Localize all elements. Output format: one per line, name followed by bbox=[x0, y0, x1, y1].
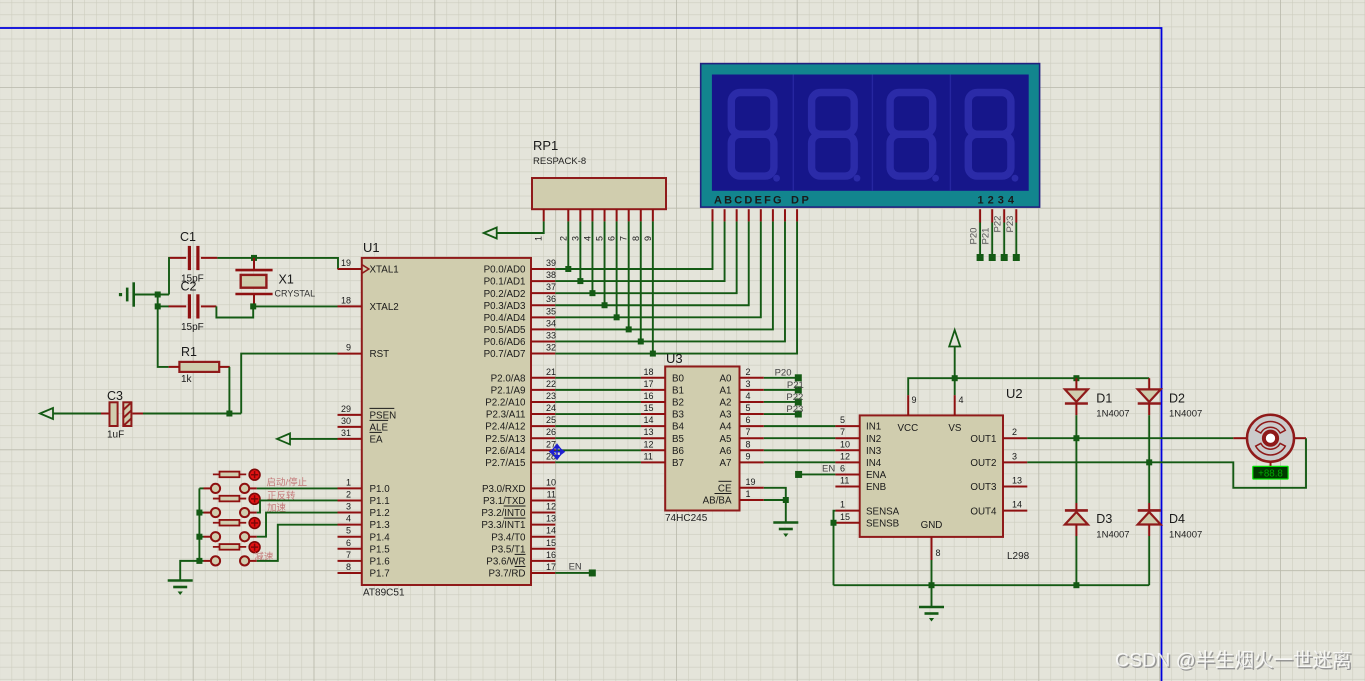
svg-text:PSEN: PSEN bbox=[370, 411, 397, 422]
svg-text:P2.0/A8: P2.0/A8 bbox=[491, 373, 526, 384]
svg-text:C2: C2 bbox=[181, 280, 197, 294]
U3 pin 19 CE bbox=[740, 487, 764, 489]
svg-text:P21: P21 bbox=[981, 228, 992, 245]
wire A2 to terminal P22 bbox=[764, 401, 795, 403]
wire A7 to IN4 bbox=[764, 461, 836, 463]
svg-text:32: 32 bbox=[546, 343, 556, 353]
svg-text:P0.3/AD3: P0.3/AD3 bbox=[484, 301, 526, 312]
ground bbox=[919, 607, 944, 614]
svg-text:1N4007: 1N4007 bbox=[1096, 530, 1129, 541]
svg-text:RST: RST bbox=[370, 349, 390, 360]
node junction bbox=[155, 303, 161, 309]
U2 pin 1 SENSA bbox=[835, 510, 859, 512]
pin 1 P1.0 bbox=[338, 487, 362, 489]
svg-text:9: 9 bbox=[746, 451, 751, 461]
pin 16 P3.6/WR bbox=[531, 560, 555, 562]
wire A5 to IN2 bbox=[764, 437, 836, 439]
svg-text:18: 18 bbox=[341, 295, 351, 305]
display segment pin bbox=[796, 209, 798, 221]
wire RP1 pin6 to P0.4 bus bbox=[616, 221, 618, 317]
wire bbox=[228, 367, 230, 414]
svg-text:SENSB: SENSB bbox=[866, 518, 900, 529]
wire GND to ground bbox=[931, 560, 933, 607]
pin 3 P1.2 bbox=[338, 512, 362, 514]
svg-text:10: 10 bbox=[546, 477, 556, 487]
svg-text:IN2: IN2 bbox=[866, 434, 881, 445]
svg-text:1N4007: 1N4007 bbox=[1096, 409, 1129, 420]
wire P0.5 to display segment F bbox=[555, 221, 773, 329]
U2 pin 6 ENA bbox=[835, 473, 859, 475]
svg-text:14: 14 bbox=[644, 415, 654, 425]
pin 12 P3.2/INT0 bbox=[531, 512, 555, 514]
wire button1 to P1.0 bbox=[257, 487, 338, 489]
wire bbox=[497, 221, 544, 233]
svg-text:P0.1/AD1: P0.1/AD1 bbox=[484, 277, 526, 288]
svg-text:P20: P20 bbox=[775, 368, 792, 379]
terminal arrow bbox=[40, 408, 53, 419]
pin 36 P0.3/AD3 bbox=[531, 304, 555, 306]
svg-text:A4: A4 bbox=[720, 422, 733, 433]
RP1 pin 4 bbox=[591, 209, 593, 221]
wire P2.3 to B3 bbox=[555, 413, 641, 415]
svg-text:P20: P20 bbox=[969, 228, 980, 245]
svg-text:1234: 1234 bbox=[978, 195, 1018, 207]
svg-text:ENA: ENA bbox=[866, 470, 887, 481]
svg-text:5: 5 bbox=[346, 526, 351, 536]
U3 pin 5 A3 bbox=[740, 413, 764, 415]
svg-text:13: 13 bbox=[1012, 476, 1022, 486]
svg-text:37: 37 bbox=[546, 282, 556, 292]
node junction bbox=[929, 582, 935, 588]
wire SENSA/SENSB bbox=[834, 511, 836, 586]
svg-text:ABCDEFG: ABCDEFG bbox=[714, 195, 784, 207]
pin 31 EA bbox=[338, 438, 362, 440]
wire bbox=[1075, 415, 1077, 438]
RP1 pin 5 bbox=[604, 209, 606, 221]
svg-text:8: 8 bbox=[936, 548, 941, 558]
svg-text:D2: D2 bbox=[1169, 392, 1185, 406]
svg-text:U2: U2 bbox=[1006, 386, 1023, 401]
svg-text:1: 1 bbox=[346, 477, 351, 487]
svg-text:ENB: ENB bbox=[866, 482, 887, 493]
svg-text:OUT3: OUT3 bbox=[970, 482, 997, 493]
svg-text:AT89C51: AT89C51 bbox=[363, 588, 405, 599]
svg-text:14: 14 bbox=[1012, 500, 1022, 510]
svg-text:7: 7 bbox=[346, 550, 351, 560]
wire P0.4 to display segment E bbox=[555, 221, 761, 317]
pin 7 P1.6 bbox=[338, 560, 362, 562]
wire P2.6 to B6 bbox=[555, 449, 641, 451]
pin 6 P1.5 bbox=[338, 548, 362, 550]
svg-text:P22: P22 bbox=[993, 216, 1004, 233]
svg-text:1: 1 bbox=[534, 236, 544, 241]
display digit pin 3 net P22 bbox=[1003, 209, 1005, 222]
svg-text:IN3: IN3 bbox=[866, 446, 882, 457]
pin 13 P3.3/INT1 bbox=[531, 524, 555, 526]
pin 35 P0.4/AD4 bbox=[531, 316, 555, 318]
pin 32 P0.7/AD7 bbox=[531, 353, 555, 355]
U3 pin 8 A6 bbox=[740, 449, 764, 451]
wire bbox=[216, 306, 253, 317]
wire bbox=[158, 306, 169, 367]
svg-text:A6: A6 bbox=[720, 446, 733, 457]
svg-text:A1: A1 bbox=[720, 385, 732, 396]
pin 2 P1.1 bbox=[338, 499, 362, 501]
svg-text:P2.4/A12: P2.4/A12 bbox=[485, 422, 525, 433]
wire A6 to IN3 bbox=[764, 449, 836, 451]
svg-text:P1.5: P1.5 bbox=[370, 544, 391, 555]
node junction bbox=[196, 534, 202, 540]
U3 pin 7 A5 bbox=[740, 437, 764, 439]
U2 pin 7 IN2 bbox=[835, 437, 859, 439]
node junction bbox=[1146, 459, 1152, 465]
svg-text:30: 30 bbox=[341, 416, 351, 426]
cursor cross bbox=[550, 445, 564, 460]
svg-text:7: 7 bbox=[619, 236, 629, 241]
U3 pin 18 B0 bbox=[641, 377, 665, 379]
wire bbox=[157, 295, 159, 307]
wire bbox=[1075, 536, 1077, 585]
svg-text:3: 3 bbox=[346, 502, 351, 512]
svg-text:D3: D3 bbox=[1096, 512, 1112, 526]
svg-text:P1.3: P1.3 bbox=[370, 520, 391, 531]
svg-text:4: 4 bbox=[582, 236, 592, 241]
pin 4 P1.3 bbox=[338, 524, 362, 526]
node junction bbox=[1073, 375, 1079, 381]
svg-text:P2.7/A15: P2.7/A15 bbox=[485, 458, 526, 469]
terminal EN (ENA) bbox=[795, 471, 802, 478]
svg-text:P0.0/AD0: P0.0/AD0 bbox=[484, 265, 526, 276]
wire bbox=[229, 413, 241, 415]
pin 21 P2.0/A8 bbox=[531, 377, 555, 379]
svg-text:18: 18 bbox=[644, 367, 654, 377]
svg-text:CE: CE bbox=[718, 483, 732, 494]
svg-text:8: 8 bbox=[746, 439, 751, 449]
button 启动/停止 bbox=[211, 484, 220, 493]
svg-text:P1.1: P1.1 bbox=[370, 496, 390, 507]
node junction bbox=[952, 375, 958, 381]
U2 pin 15 SENSB bbox=[835, 522, 859, 524]
U3 pin 1 AB/BA bbox=[740, 499, 764, 501]
pin 8 P1.7 bbox=[338, 572, 362, 574]
svg-text:7: 7 bbox=[840, 427, 845, 437]
svg-text:10: 10 bbox=[840, 439, 850, 449]
motor bbox=[1233, 437, 1247, 439]
svg-text:1k: 1k bbox=[181, 374, 193, 385]
svg-text:A0: A0 bbox=[720, 373, 733, 384]
svg-text:CSDN @半生烟火一世迷离: CSDN @半生烟火一世迷离 bbox=[1115, 650, 1351, 672]
pin 11 P3.1/TXD bbox=[531, 499, 555, 501]
svg-text:A3: A3 bbox=[720, 410, 733, 421]
svg-text:B7: B7 bbox=[672, 458, 684, 469]
wire P0.1 to display segment B bbox=[555, 221, 724, 281]
terminal arrow RP1 pin1 bbox=[484, 228, 497, 239]
svg-text:P3.4/T0: P3.4/T0 bbox=[491, 532, 526, 543]
svg-text:XTAL1: XTAL1 bbox=[370, 265, 399, 276]
display segment pin bbox=[724, 209, 726, 221]
svg-text:3: 3 bbox=[746, 379, 751, 389]
U2 pin 4 VS bbox=[954, 395, 956, 415]
wire RP1 pin4 to P0.2 bus bbox=[591, 221, 593, 293]
svg-text:P3.7/RD: P3.7/RD bbox=[488, 569, 525, 580]
svg-text:35: 35 bbox=[546, 306, 556, 316]
terminal EN (P3.7) bbox=[555, 572, 589, 574]
U3 pin 6 A4 bbox=[740, 425, 764, 427]
wire bbox=[1075, 438, 1077, 503]
wire P0.3 to display segment D bbox=[555, 221, 748, 305]
U3 pin 14 B4 bbox=[641, 425, 665, 427]
svg-text:VS: VS bbox=[948, 423, 962, 434]
display segment pin bbox=[784, 209, 786, 221]
svg-text:A5: A5 bbox=[720, 434, 733, 445]
wire P0.7 to display segment DP bbox=[555, 221, 797, 353]
svg-text:P22: P22 bbox=[786, 392, 803, 403]
svg-text:15: 15 bbox=[840, 512, 850, 522]
U2 pin 8 GND bbox=[931, 537, 933, 560]
svg-text:23: 23 bbox=[546, 391, 556, 401]
svg-text:P2.6/A14: P2.6/A14 bbox=[485, 446, 526, 457]
svg-text:P2.2/A10: P2.2/A10 bbox=[485, 398, 526, 409]
motor rpm readout +88.8 bbox=[1270, 462, 1272, 467]
svg-text:B3: B3 bbox=[672, 410, 685, 421]
diode D3 1N4007 bbox=[1075, 503, 1077, 510]
svg-text:B4: B4 bbox=[672, 422, 685, 433]
svg-text:XTAL2: XTAL2 bbox=[370, 302, 399, 313]
svg-text:24: 24 bbox=[546, 403, 556, 413]
4-digit 7-segment display bbox=[701, 64, 1040, 208]
U3 pin 16 B2 bbox=[641, 401, 665, 403]
svg-text:B2: B2 bbox=[672, 398, 684, 409]
svg-text:P3.3/INT1: P3.3/INT1 bbox=[481, 520, 525, 531]
svg-text:B0: B0 bbox=[672, 373, 685, 384]
svg-text:9: 9 bbox=[912, 395, 917, 405]
svg-text:6: 6 bbox=[840, 463, 845, 473]
wire P2.4 to B4 bbox=[555, 425, 641, 427]
svg-text:P1.2: P1.2 bbox=[370, 508, 390, 519]
svg-text:IN1: IN1 bbox=[866, 422, 881, 433]
pin 29 PSEN bbox=[338, 414, 362, 416]
diode D1 1N4007 bbox=[1075, 378, 1077, 389]
wire RP1 pin8 to P0.6 bus bbox=[640, 221, 642, 341]
wire bbox=[253, 305, 337, 307]
wire P2.2 to B2 bbox=[555, 401, 641, 403]
U3 pin 15 B3 bbox=[641, 413, 665, 415]
svg-text:P2.5/A13: P2.5/A13 bbox=[485, 434, 526, 445]
svg-text:P3.5/T1: P3.5/T1 bbox=[491, 544, 525, 555]
svg-text:AB/BA: AB/BA bbox=[703, 496, 732, 507]
svg-text:P1.7: P1.7 bbox=[370, 569, 390, 580]
svg-text:12: 12 bbox=[644, 439, 654, 449]
svg-text:A2: A2 bbox=[720, 398, 732, 409]
pin 14 P3.4/T0 bbox=[531, 536, 555, 538]
svg-text:SENSA: SENSA bbox=[866, 506, 900, 517]
wire bbox=[134, 294, 169, 296]
wire button4 to P1.3 bbox=[257, 525, 338, 561]
U2 pin 9 VCC bbox=[907, 395, 909, 415]
wire bbox=[167, 258, 170, 295]
svg-text:2: 2 bbox=[746, 367, 751, 377]
svg-text:B5: B5 bbox=[672, 434, 685, 445]
pin 27 P2.6/A14 bbox=[531, 449, 555, 451]
pin 25 P2.4/A12 bbox=[531, 425, 555, 427]
svg-text:6: 6 bbox=[746, 415, 751, 425]
svg-text:33: 33 bbox=[546, 330, 556, 340]
wire bbox=[53, 413, 101, 415]
svg-text:1: 1 bbox=[746, 489, 751, 499]
pin 10 P3.0/RXD bbox=[531, 487, 555, 489]
svg-text:启动/停止: 启动/停止 bbox=[267, 477, 308, 489]
svg-text:2: 2 bbox=[1012, 427, 1017, 437]
svg-text:29: 29 bbox=[341, 404, 351, 414]
svg-text:5: 5 bbox=[595, 236, 605, 241]
svg-text:P21: P21 bbox=[787, 380, 804, 391]
pin 33 P0.6/AD6 bbox=[531, 340, 555, 342]
U2 pin 3 OUT2 bbox=[1003, 461, 1027, 463]
svg-text:11: 11 bbox=[644, 451, 653, 461]
svg-text:CRYSTAL: CRYSTAL bbox=[275, 289, 316, 299]
svg-text:6: 6 bbox=[607, 236, 617, 241]
svg-text:25: 25 bbox=[546, 415, 556, 425]
svg-text:7: 7 bbox=[746, 427, 751, 437]
terminal arrow EA bbox=[277, 433, 290, 444]
svg-text:DP: DP bbox=[791, 195, 811, 207]
svg-text:P2.1/A9: P2.1/A9 bbox=[491, 385, 526, 396]
RP1 pin 3 bbox=[579, 209, 581, 221]
button 减速 bbox=[211, 556, 220, 565]
wire P2.0 to B0 bbox=[555, 377, 641, 379]
svg-text:C1: C1 bbox=[180, 230, 196, 244]
pin 30 ALE bbox=[338, 426, 362, 428]
display digit pin 1 net P20 bbox=[979, 209, 981, 222]
pin 34 P0.5/AD5 bbox=[531, 328, 555, 330]
svg-text:L298: L298 bbox=[1007, 551, 1030, 562]
button 加速 bbox=[211, 532, 220, 541]
node junction bbox=[196, 510, 202, 516]
U3 pin 11 B7 bbox=[641, 461, 665, 463]
svg-text:P3.0/RXD: P3.0/RXD bbox=[482, 484, 526, 495]
svg-text:VCC: VCC bbox=[898, 423, 919, 434]
U2 pin 13 OUT3 bbox=[1003, 486, 1027, 488]
svg-text:12: 12 bbox=[840, 451, 850, 461]
svg-text:P0.5/AD5: P0.5/AD5 bbox=[484, 325, 526, 336]
U2 pin 14 OUT4 bbox=[1003, 510, 1027, 512]
display segment pin bbox=[712, 209, 714, 221]
power terminal VCC arrow bbox=[949, 330, 960, 347]
svg-text:ALE: ALE bbox=[370, 423, 389, 434]
U2 pin 10 IN3 bbox=[835, 449, 859, 451]
svg-text:17: 17 bbox=[546, 562, 556, 572]
wire bbox=[1148, 536, 1150, 585]
wire RP1 pin3 to P0.1 bus bbox=[579, 221, 581, 281]
node junction bbox=[783, 497, 789, 503]
pin 15 P3.5/T1 bbox=[531, 548, 555, 550]
wire P2.5 to B5 bbox=[555, 437, 641, 439]
wire CE/ABBA to ground bbox=[764, 488, 786, 500]
svg-text:U1: U1 bbox=[363, 240, 380, 255]
U2 pin 5 IN1 bbox=[835, 425, 859, 427]
svg-text:EN: EN bbox=[822, 464, 835, 475]
svg-text:D4: D4 bbox=[1169, 512, 1185, 526]
svg-text:1N4007: 1N4007 bbox=[1169, 409, 1202, 420]
svg-text:3: 3 bbox=[1012, 451, 1017, 461]
svg-text:A7: A7 bbox=[720, 458, 732, 469]
svg-text:16: 16 bbox=[644, 391, 654, 401]
svg-text:16: 16 bbox=[546, 550, 556, 560]
svg-text:OUT1: OUT1 bbox=[970, 434, 996, 445]
svg-text:14: 14 bbox=[546, 526, 556, 536]
svg-text:B6: B6 bbox=[672, 446, 685, 457]
display digit pin 4 net P23 bbox=[1015, 209, 1017, 222]
node junction bbox=[155, 292, 161, 298]
svg-text:31: 31 bbox=[341, 428, 351, 438]
svg-text:5: 5 bbox=[840, 415, 845, 425]
U2 pin 2 OUT1 bbox=[1003, 437, 1027, 439]
svg-text:P3.6/WR: P3.6/WR bbox=[486, 556, 525, 567]
U3 pin 9 A7 bbox=[740, 461, 764, 463]
svg-text:38: 38 bbox=[546, 270, 556, 280]
svg-text:12: 12 bbox=[546, 502, 556, 512]
svg-text:17: 17 bbox=[644, 379, 654, 389]
wire P2.7 to B7 bbox=[555, 461, 641, 463]
wire bbox=[1148, 462, 1150, 503]
wire P0.2 to display segment C bbox=[555, 221, 736, 293]
wire A4 to IN1 bbox=[764, 425, 836, 427]
pin 38 P0.1/AD1 bbox=[531, 280, 555, 282]
pin 39 P0.0/AD0 bbox=[531, 268, 555, 270]
display segment pin bbox=[760, 209, 762, 221]
svg-text:P23: P23 bbox=[1005, 216, 1016, 233]
RP1 pin 6 bbox=[616, 209, 618, 221]
wire bbox=[290, 438, 338, 440]
U3 pin 17 B1 bbox=[641, 389, 665, 391]
wire P0.6 to display segment G bbox=[555, 221, 785, 341]
node junction bbox=[251, 255, 257, 261]
svg-text:4: 4 bbox=[746, 391, 751, 401]
U3 pin 12 B6 bbox=[641, 449, 665, 451]
node junction bbox=[226, 411, 232, 417]
wire RP1 pin9 to P0.7 bus bbox=[652, 221, 654, 353]
U2 pin 11 ENB bbox=[835, 486, 859, 488]
svg-text:11: 11 bbox=[547, 489, 556, 499]
diode D2 1N4007 bbox=[1148, 378, 1150, 389]
svg-text:OUT2: OUT2 bbox=[970, 458, 996, 469]
svg-text:13: 13 bbox=[644, 427, 654, 437]
pin 18 XTAL2 bbox=[338, 305, 362, 307]
svg-text:8: 8 bbox=[346, 562, 351, 572]
wire bottom bus bbox=[834, 584, 1150, 586]
RP1 pin 7 bbox=[628, 209, 630, 221]
display segment pin bbox=[772, 209, 774, 221]
pin 28 P2.7/A15 bbox=[531, 461, 555, 463]
svg-text:3: 3 bbox=[570, 236, 580, 241]
svg-text:P1.0: P1.0 bbox=[370, 484, 391, 495]
svg-text:1uF: 1uF bbox=[107, 430, 124, 441]
svg-text:GND: GND bbox=[921, 520, 943, 531]
RP1 pin 2 bbox=[567, 209, 569, 221]
svg-text:39: 39 bbox=[546, 258, 556, 268]
wire power bus bbox=[908, 378, 1149, 395]
svg-text:P1.4: P1.4 bbox=[370, 532, 391, 543]
svg-text:1: 1 bbox=[840, 500, 845, 510]
node junction bbox=[831, 520, 837, 526]
svg-text:EA: EA bbox=[370, 435, 384, 446]
svg-text:P1.6: P1.6 bbox=[370, 556, 391, 567]
wire A1 to terminal P21 bbox=[764, 389, 795, 391]
wire RP1 pin5 to P0.3 bus bbox=[604, 221, 606, 305]
wire P2.1 to B1 bbox=[555, 389, 641, 391]
node junction bbox=[250, 303, 256, 309]
U3 pin 3 A1 bbox=[740, 389, 764, 391]
